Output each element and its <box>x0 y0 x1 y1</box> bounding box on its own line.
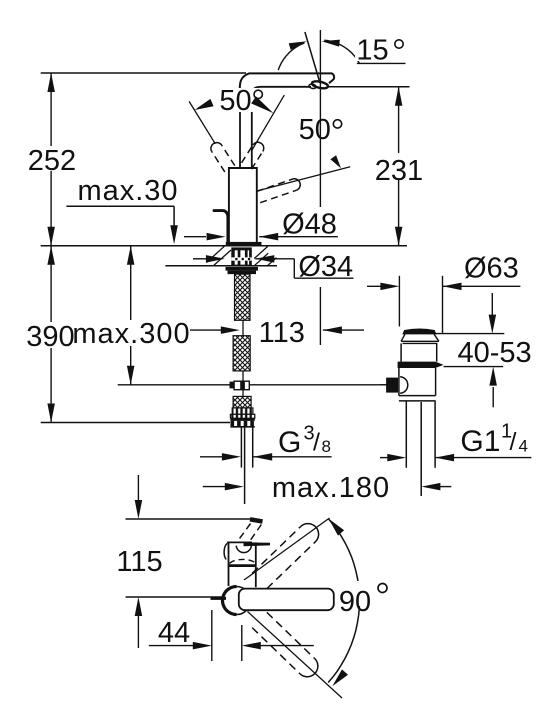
svg-text:Ø48: Ø48 <box>282 208 337 240</box>
15 deg angle arc right segment with arrowhead <box>324 40 359 63</box>
svg-text:390: 390 <box>26 321 74 353</box>
svg-text:40-53: 40-53 <box>458 337 532 369</box>
drain tailpipe <box>405 401 407 468</box>
svg-text:252: 252 <box>28 145 76 177</box>
check valves / connection block under faucet <box>233 396 251 408</box>
label 90 deg <box>338 581 391 606</box>
svg-text:50: 50 <box>299 114 331 146</box>
dimension 40-53 reference lines <box>435 333 504 335</box>
faucet neck: left and right vertical lines <box>239 88 241 168</box>
top view: cartridge dome arc <box>236 546 251 553</box>
threaded shank lower segment (cross-hatch) <box>233 336 250 371</box>
arrowhead on left lever axis <box>195 99 214 110</box>
svg-text:max.300: max.300 <box>72 318 190 350</box>
drain neck <box>400 343 402 361</box>
top view: cartridge housing outline <box>229 542 256 565</box>
countertop deck line <box>41 245 407 247</box>
wire: supply pipe centerline between shank segments <box>242 320 244 335</box>
label 252 <box>28 146 76 171</box>
label 113 <box>258 319 306 344</box>
top view: dashed spout projection lines <box>237 524 251 543</box>
top view: upper dashed handle at 45 deg <box>267 542 315 589</box>
top view: housing shoulder (thick line) <box>229 564 256 567</box>
dimension 44 arrows <box>149 645 196 647</box>
wire: spout outlet level line extending right to 231 dimension <box>329 86 410 88</box>
label 231 <box>376 153 423 179</box>
supply tube below check valves <box>240 427 242 468</box>
svg-text:max.180: max.180 <box>272 472 390 504</box>
svg-text:50: 50 <box>219 85 251 117</box>
15 deg angle arc left segment with arrowhead <box>278 43 304 70</box>
faucet spout underside: inner bend and bottom edge <box>252 87 311 95</box>
pop-up rod horizontal linkage <box>118 384 230 386</box>
svg-text:Ø34: Ø34 <box>298 251 353 283</box>
wire: bottom tick line of 390 dimension <box>41 422 230 424</box>
deck section hatching right of hole <box>254 247 267 259</box>
pop-up rod behind faucet body (side view) <box>214 211 228 243</box>
aerator at spout tip (thick ellipse) <box>311 80 328 89</box>
top view: small arc left of housing <box>224 543 227 559</box>
svg-text:113: 113 <box>259 317 305 349</box>
svg-text:/: / <box>313 429 320 457</box>
drain ball-joint housing (bulge on left) <box>400 377 408 394</box>
dashed lever capsule left 50 deg position <box>222 145 235 165</box>
svg-text:8: 8 <box>322 437 331 456</box>
svg-text:max.30: max.30 <box>77 175 178 207</box>
top view: aerator tip (thick bar) <box>250 519 263 521</box>
label max.300 <box>79 320 189 346</box>
arrowhead pointing to right lever axis (first 50 deg) <box>251 96 273 113</box>
svg-text:115: 115 <box>116 546 162 578</box>
top view: body sides below shoulder <box>228 566 230 586</box>
svg-text:G1: G1 <box>460 425 500 458</box>
wire: drain centerline <box>420 402 422 496</box>
dimension 44 extension lines <box>211 610 213 661</box>
wire: top reference line at spout-top level <box>41 72 246 74</box>
top view: pivot circle (thick left half) <box>223 587 251 615</box>
svg-text:4: 4 <box>519 437 528 456</box>
svg-text:44: 44 <box>158 617 190 649</box>
faucet spout (side view): top edge, bend and tip <box>240 73 334 95</box>
90 deg swing arc with arrowheads <box>328 519 359 683</box>
wire: centerline below rod clamp <box>242 390 244 397</box>
lever axis line right 50 deg position <box>252 95 284 150</box>
label 15 deg with leader underline <box>357 62 406 64</box>
label 50 deg (first) <box>217 88 265 112</box>
dimension 231: vertical dimension line with arrows <box>398 87 400 246</box>
dimension 390: vertical dimension line with arrows <box>50 246 52 423</box>
top view: hidden cartridge dashed arc <box>230 559 255 563</box>
dashed lever capsule lowered position <box>260 190 296 202</box>
top view: lower dashed handle at 45 deg <box>252 628 300 674</box>
svg-text:G: G <box>278 426 301 459</box>
dimension diameter 48 arrows at base <box>184 236 206 238</box>
pop-up rod knob at drain (dark) <box>386 378 398 393</box>
label diameter 48 <box>281 210 339 235</box>
top view: diagonal axis line upper <box>244 518 330 580</box>
svg-text:90: 90 <box>339 586 371 618</box>
dimension 252: vertical dimension line with arrows <box>50 73 52 246</box>
top view: handle bar solid position (rounded rect) <box>239 589 334 611</box>
faucet base plate on deck (dark band) <box>226 242 262 247</box>
label 390 <box>29 322 77 348</box>
svg-text:231: 231 <box>375 155 423 187</box>
top view: lever bar pointing right (dark) <box>244 542 271 546</box>
top view: reference line at handle axis <box>126 596 223 598</box>
mounting shank between deck lines (with stud pattern) <box>231 247 252 250</box>
top view: diagonal axis line lower <box>248 612 343 699</box>
dimension G1 1/4 arrows at tailpipe <box>380 457 391 459</box>
dimension 113 between centerline and spout-tip line <box>190 329 222 331</box>
arrowhead on lowered lever axis <box>330 155 341 168</box>
dimension diameter 63 extension lines above drain <box>398 276 400 327</box>
top view: pop-up rod stub (thick bar left of circle) <box>211 597 227 600</box>
lever axis line lowered position <box>257 167 350 191</box>
rod clamp at faucet centerline <box>230 382 235 389</box>
drain pop-up plug cap (dark) <box>403 329 435 334</box>
faucet body (side view) rectangle <box>229 168 257 242</box>
dashed lever capsule right 50 deg position <box>251 151 262 169</box>
dimension 40-53 arrows <box>491 293 493 315</box>
dimension G 3/8 arrows at supply tube <box>200 456 226 458</box>
wire: faucet centerline below shank <box>242 371 244 382</box>
drain body bottom collar <box>399 395 436 397</box>
top view: reference line at spout tip <box>126 518 252 520</box>
svg-text:Ø63: Ø63 <box>464 253 519 285</box>
drain seat flange (dark band with pointed edge) <box>398 362 444 368</box>
dimension 115: top arrow <box>137 475 139 500</box>
drain plug flare <box>401 334 439 343</box>
dimension 115: bottom arrow <box>135 597 143 616</box>
deck section hatching left of hole <box>207 246 225 262</box>
dimension max.300: vertical line with arrows <box>130 246 132 385</box>
wire: vertical reference line through spout tip <box>319 30 321 207</box>
backnut and washer below deck (dark bands) <box>226 267 259 271</box>
lever axis line left 50 deg position <box>189 101 215 143</box>
svg-text:/: / <box>510 428 517 456</box>
drain body below flange <box>398 368 400 396</box>
threaded shank upper segment (cross-hatch) <box>235 274 251 320</box>
wire: faucet centerline extension to max.180 <box>244 427 246 504</box>
label diameter 34 with bent leader underline <box>293 259 295 278</box>
lever in vertical position: tilted line at top (15 deg) <box>305 32 320 83</box>
svg-text:15: 15 <box>356 34 388 66</box>
dimension diameter 63 arrows <box>367 285 384 287</box>
countertop bottom line <box>165 265 277 267</box>
dimension diameter 34 arrows at hole <box>193 258 206 260</box>
dimension max.180 between faucet and drain centerlines <box>203 486 228 488</box>
